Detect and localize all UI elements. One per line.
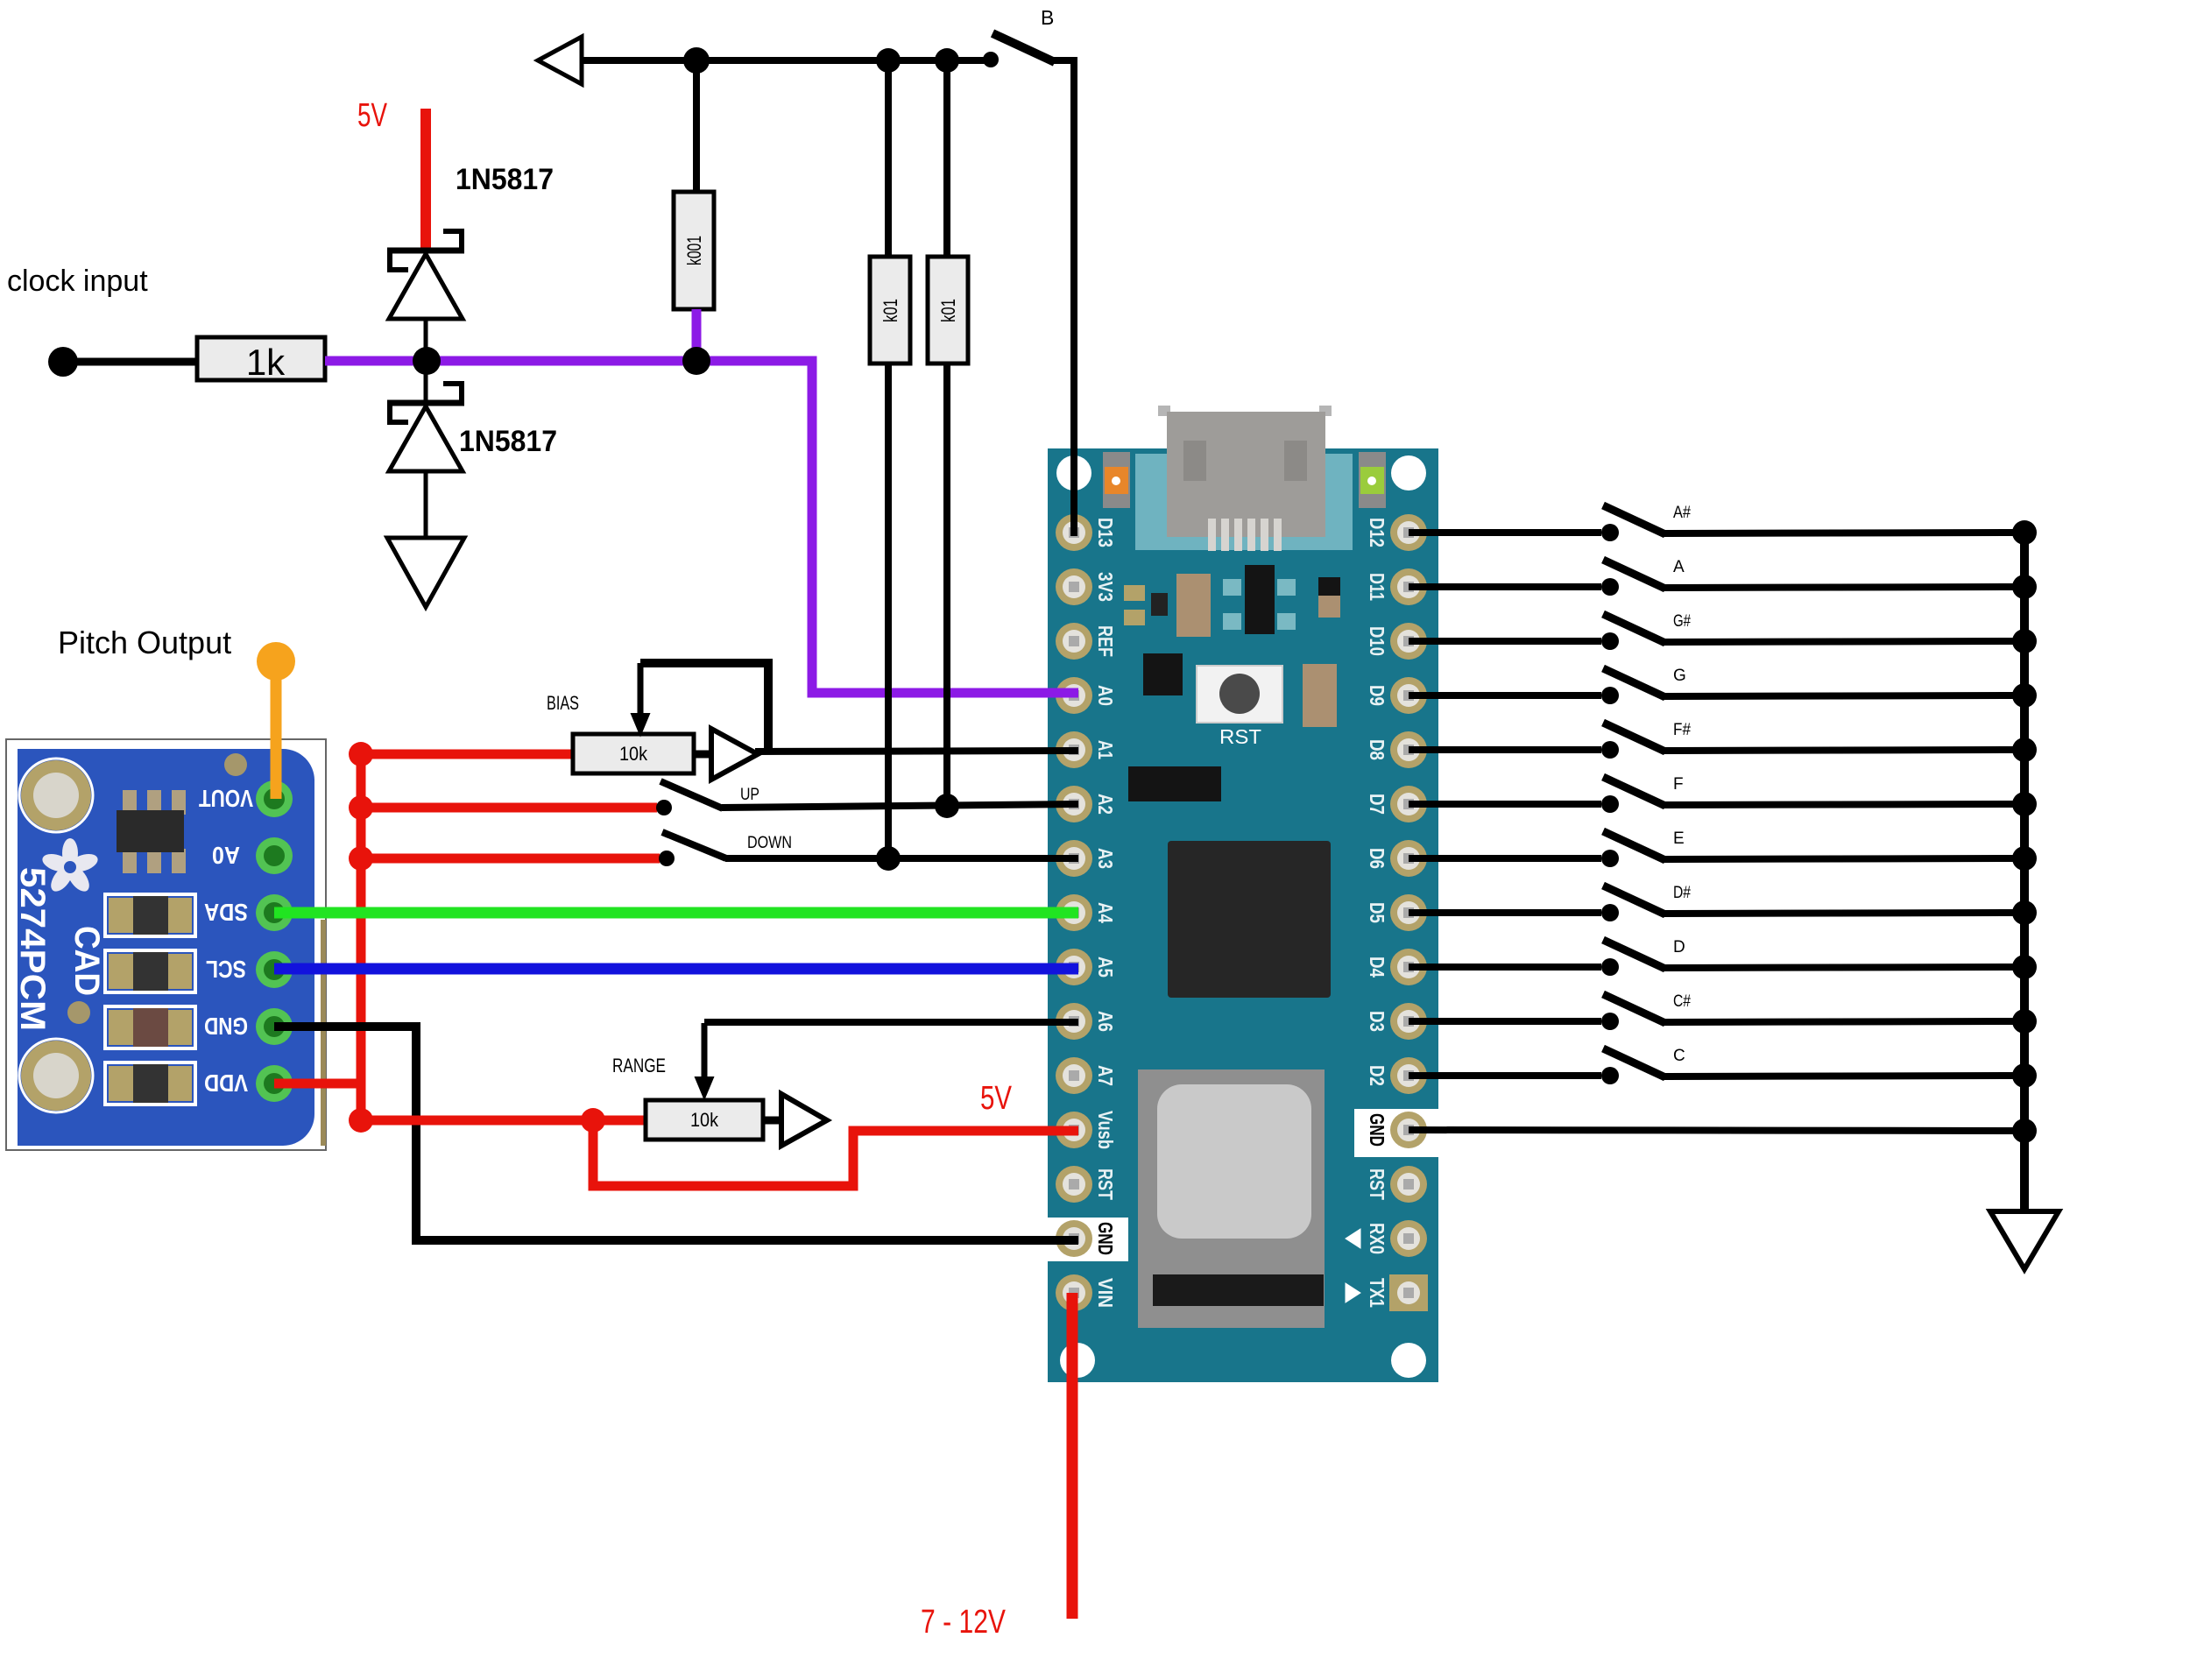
arrow head (off-page, pointing left) <box>538 37 582 84</box>
Nano pin A6 (left, 10) <box>1056 1003 1117 1040</box>
wire D4 to switch D <box>1409 964 1601 971</box>
node red bus / UP <box>349 795 373 820</box>
wire RANGE wiper to A6 <box>704 1019 1078 1026</box>
Nano pin RST (right, 13) <box>1366 1166 1427 1203</box>
Nano pin D4 (right, 9) <box>1366 949 1427 985</box>
switch D: contact dot <box>1601 958 1619 976</box>
svg-text:BIAS: BIAS <box>547 692 579 714</box>
svg-text:Vusb: Vusb <box>1094 1111 1117 1149</box>
Nano pin RST (left, 13) <box>1056 1166 1117 1203</box>
svg-text:D6: D6 <box>1366 848 1388 869</box>
wire switch G to ground bus <box>1664 695 2024 696</box>
svg-text:A4: A4 <box>1094 902 1117 923</box>
switch C: lever <box>1603 1048 1665 1077</box>
passive component (SDA row) <box>105 894 195 936</box>
wire (purple) 1k to diode junction <box>325 356 428 366</box>
svg-text:RST: RST <box>1366 1168 1388 1200</box>
potentiometer BIAS 10k <box>573 734 694 773</box>
switch E: contact dot <box>1601 850 1619 867</box>
svg-text:RX0: RX0 <box>1366 1223 1388 1254</box>
Nano pin REF (left, 3) <box>1056 623 1117 660</box>
svg-text:A: A <box>1673 558 1685 576</box>
svg-text:D5: D5 <box>1366 902 1388 923</box>
BIAS wiper arrow <box>632 663 649 735</box>
switch F#: lever <box>1603 723 1665 752</box>
svg-text:D4: D4 <box>1366 956 1388 978</box>
wire D2 to switch C <box>1409 1072 1601 1079</box>
node top rail / 10k left <box>876 48 901 73</box>
switch A#: contact dot <box>1601 524 1619 541</box>
switch B: contact dot <box>983 52 999 67</box>
switch C: contact dot <box>1601 1067 1619 1084</box>
switch D: lever <box>1603 940 1665 969</box>
op-amp buffer (RANGE) <box>763 1094 827 1146</box>
node: clock input terminal <box>48 347 78 377</box>
svg-text:A2: A2 <box>1094 794 1117 815</box>
node top rail / 10k right <box>935 48 959 73</box>
ground symbol (clock input clamp) <box>387 538 464 607</box>
wire switch G# to ground bus <box>1664 641 2024 642</box>
wire D12 to switch A# <box>1409 529 1601 536</box>
Nano mounting holes <box>1056 455 1426 1378</box>
svg-text:RST: RST <box>1094 1168 1117 1200</box>
wire GND (right) to ground bus <box>1409 1130 2024 1131</box>
Nano pin Vusb (left, 12) <box>1056 1111 1117 1149</box>
red supply bus (vertical) <box>357 754 366 1120</box>
switch G#: contact dot <box>1601 632 1619 650</box>
node ground bus / C <box>2012 1063 2037 1088</box>
svg-text:C: C <box>1673 1047 1685 1065</box>
svg-text:F: F <box>1673 775 1684 794</box>
Nano pin D2 (right, 11) <box>1366 1057 1427 1094</box>
wire D7 to switch F <box>1409 801 1601 808</box>
ground symbol (right bus) <box>1990 1211 2059 1269</box>
GND label box (left) <box>1045 1218 1128 1261</box>
svg-text:A3: A3 <box>1094 848 1117 869</box>
svg-text:E: E <box>1673 829 1685 848</box>
Nano pin D9 (right, 4) <box>1366 677 1427 714</box>
Nano pin RX0 (right, 14) <box>1366 1220 1427 1257</box>
switch G: lever <box>1603 668 1665 697</box>
node: diode clamp junction on clock line <box>413 347 441 375</box>
svg-text:D11: D11 <box>1366 573 1388 601</box>
wire top rail to 10k left <box>885 60 892 259</box>
wire switch A# to ground bus <box>1664 533 2024 533</box>
svg-text:A1: A1 <box>1094 740 1117 759</box>
voltage regulator and caps <box>1124 565 1340 637</box>
switch DOWN: contact dot <box>659 851 675 866</box>
svg-text:VDD: VDD <box>204 1069 248 1097</box>
svg-text:SDA: SDA <box>204 899 248 926</box>
Nano pin D8 (right, 5) <box>1366 731 1427 768</box>
svg-text:1N5817: 1N5817 <box>456 163 554 196</box>
wire D6 to switch E <box>1409 855 1601 862</box>
wire BIAS wiper to output <box>640 663 768 752</box>
Nano pin 3V3 (left, 2) <box>1056 568 1117 605</box>
wire clock input to R 1k <box>63 358 200 366</box>
switch F: contact dot <box>1601 795 1619 813</box>
svg-text:F#: F# <box>1673 721 1691 739</box>
node ground bus / A <box>2012 575 2037 599</box>
node ground bus / C# <box>2012 1009 2037 1034</box>
svg-text:Pitch Output: Pitch Output <box>58 625 231 660</box>
Nano pin TX1 (right, 15) <box>1366 1274 1428 1311</box>
MCP4725 pad A0 <box>212 837 293 874</box>
svg-text:C#: C# <box>1673 992 1691 1011</box>
Nano pin D11 (right, 2) <box>1366 568 1427 605</box>
svg-text:UP: UP <box>740 786 759 804</box>
node top rail / 100k <box>683 47 710 74</box>
switch B: lever <box>993 33 1055 62</box>
wire D8 to switch F# <box>1409 746 1601 753</box>
node ground bus / E <box>2012 846 2037 871</box>
svg-text:D3: D3 <box>1366 1011 1388 1032</box>
svg-text:GND: GND <box>1366 1113 1388 1147</box>
svg-text:G: G <box>1673 667 1686 685</box>
svg-text:10k: 10k <box>619 743 648 765</box>
resistor 10k (left pull-up, DOWN) <box>870 257 910 364</box>
svg-text:1k: 1k <box>246 342 286 383</box>
Nano pin A7 (left, 11) <box>1056 1057 1117 1094</box>
svg-text:D9: D9 <box>1366 685 1388 706</box>
node ground bus / G <box>2012 683 2037 708</box>
svg-text:A6: A6 <box>1094 1011 1117 1032</box>
RANGE wiper arrow <box>696 1023 713 1098</box>
wire switch D to ground bus <box>1664 967 2024 968</box>
switch C#: lever <box>1603 994 1665 1023</box>
Nano pin D12 (right, 1) <box>1366 514 1427 551</box>
wire (red) VDD to red bus <box>274 1079 361 1089</box>
node red bus / DOWN <box>349 846 373 871</box>
svg-text:5V: 5V <box>357 97 387 134</box>
wire (purple) diode junction to 100k junction <box>428 356 696 366</box>
wire (green) SDA to A4 <box>274 907 1078 919</box>
diode D1 1N5817 (clamp to 5V) <box>387 231 464 361</box>
wire top rail to 100k <box>693 60 700 194</box>
node ground bus / G# <box>2012 629 2037 653</box>
wire (purple) clock line to pin A0 <box>696 361 1048 693</box>
node: pitch output terminal (orange) <box>257 642 295 681</box>
resistor 10k (right pull-up, UP) <box>928 257 968 364</box>
node red RANGE branch <box>581 1108 605 1133</box>
svg-text:7 - 12V: 7 - 12V <box>921 1604 1007 1641</box>
svg-text:D12: D12 <box>1366 518 1388 547</box>
wire switch A to ground bus <box>1664 587 2024 588</box>
svg-text:GND: GND <box>204 1013 248 1040</box>
wire switch F# to ground bus <box>1664 750 2024 751</box>
switch F#: contact dot <box>1601 741 1619 759</box>
svg-text:A#: A# <box>1673 504 1691 522</box>
TX1 arrow marker <box>1346 1283 1360 1302</box>
Nano pin D13 (left, 1) <box>1056 514 1117 551</box>
MCP4725 pad SCL <box>206 951 293 988</box>
svg-text:VOUT: VOUT <box>199 785 253 812</box>
svg-text:RST: RST <box>1219 725 1261 748</box>
svg-text:5V: 5V <box>980 1080 1013 1117</box>
switch F: lever <box>1603 777 1665 806</box>
ground bus (vertical) <box>2020 533 2029 1214</box>
svg-text:D10: D10 <box>1366 626 1388 656</box>
svg-text:1N5817: 1N5817 <box>459 425 557 458</box>
svg-text:3V3: 3V3 <box>1094 572 1117 602</box>
Nano pin A5 (left, 9) <box>1056 949 1117 985</box>
MCP4725 DAC breakout board <box>6 739 326 1150</box>
wire UP switch to A2 <box>722 804 1078 808</box>
wire (red) VIN supply <box>1067 1293 1078 1619</box>
wire (blue) SCL to A5 <box>274 964 1078 975</box>
RST button <box>1197 666 1282 748</box>
potentiometer RANGE 10k <box>646 1100 763 1140</box>
wire switch B to D13 (upper part) <box>1053 60 1074 448</box>
svg-text:TX1: TX1 <box>1366 1278 1388 1308</box>
node DOWN / 10k left <box>876 846 901 871</box>
svg-text:D: D <box>1673 938 1685 956</box>
Nano pin A0 (left, 4) <box>1056 677 1117 714</box>
Nano pin A1 (left, 5) <box>1056 731 1117 768</box>
Nano pin VIN (left, 15) <box>1056 1274 1117 1311</box>
resistor 1k <box>197 337 325 380</box>
svg-text:SCL: SCL <box>206 956 246 983</box>
wire (red) bus to UP switch <box>361 803 657 813</box>
MCP4725 pad VDD <box>204 1065 293 1102</box>
svg-text:B: B <box>1041 6 1054 29</box>
node ground bus / F <box>2012 792 2037 816</box>
GND label box (right) <box>1354 1109 1438 1157</box>
svg-text:A0: A0 <box>1094 685 1117 706</box>
MCP4725 pad VOUT <box>199 780 293 817</box>
wire op-amp output to A1 <box>755 751 1078 752</box>
svg-text:D2: D2 <box>1366 1065 1388 1086</box>
Nano pin D3 (right, 10) <box>1366 1003 1427 1040</box>
svg-text:D8: D8 <box>1366 739 1388 760</box>
black IC near A1/A2 <box>1128 766 1221 801</box>
wire top rail <box>582 57 991 64</box>
wire switch C to ground bus <box>1664 1076 2024 1076</box>
switch G: contact dot <box>1601 687 1619 704</box>
Nano pin D10 (right, 3) <box>1366 623 1427 660</box>
resistor 100k <box>674 192 714 309</box>
svg-text:DOWN: DOWN <box>747 834 792 852</box>
wire (purple) into pin A0 (over board) <box>1042 688 1078 698</box>
switch E: lever <box>1603 831 1665 860</box>
switch UP: contact dot <box>656 800 672 815</box>
wire D11 to switch A <box>1409 583 1601 590</box>
svg-text:VIN: VIN <box>1094 1278 1117 1308</box>
wire (red) bus to DOWN switch <box>361 854 660 864</box>
wire switch C# to ground bus <box>1664 1021 2024 1022</box>
switch A#: lever <box>1603 505 1665 534</box>
passive component (GND row) <box>105 1006 195 1048</box>
Nano pin GND (right, 12) <box>1366 1112 1427 1148</box>
svg-text:k01: k01 <box>880 299 901 322</box>
switch UP: lever <box>661 781 723 808</box>
wire D10 to switch G# <box>1409 638 1601 645</box>
switch D#: contact dot <box>1601 904 1619 921</box>
svg-text:RANGE: RANGE <box>612 1055 666 1076</box>
wire D3 to switch C# <box>1409 1018 1601 1025</box>
node red bus / BIAS <box>349 742 373 766</box>
metal module (bottom) <box>1138 1069 1325 1328</box>
Nano pin D7 (right, 6) <box>1366 786 1427 822</box>
svg-text:clock input: clock input <box>7 265 148 298</box>
wire switch F to ground bus <box>1664 804 2024 805</box>
wire 10k right to UP switch line <box>943 364 950 807</box>
svg-text:CAD: CAD <box>67 926 106 996</box>
switch A: lever <box>1603 560 1665 589</box>
wire DOWN switch to A3 <box>725 855 1078 862</box>
svg-text:D#: D# <box>1673 884 1691 902</box>
wire (red) bus to BIAS pot <box>361 750 575 759</box>
wire (black) MCP GND to Nano GND (left) <box>274 1027 1078 1240</box>
svg-text:10k: 10k <box>690 1109 719 1131</box>
svg-text:k001: k001 <box>683 236 705 265</box>
wire top rail to 10k right <box>943 60 950 259</box>
node ground bus / D <box>2012 955 2037 979</box>
wire 5V supply (red) <box>420 109 431 248</box>
svg-text:A5: A5 <box>1094 956 1117 978</box>
Nano pin D6 (right, 7) <box>1366 840 1427 877</box>
svg-text:REF: REF <box>1094 625 1117 657</box>
wire switch B to D13 (over board) <box>1070 447 1077 536</box>
node ground bus / A# <box>2012 520 2037 545</box>
passive component (VDD row) <box>105 1062 195 1105</box>
USB connector <box>1158 406 1332 551</box>
node ground bus / GND <box>2012 1119 2037 1143</box>
switch A: contact dot <box>1601 578 1619 596</box>
wire switch D# to ground bus <box>1664 913 2024 914</box>
svg-text:5274PCM: 5274PCM <box>13 867 52 1031</box>
cap right of RST <box>1303 664 1337 727</box>
LED (green, power) <box>1359 452 1386 508</box>
wire (purple) 100k to clock line <box>692 309 702 361</box>
node ground bus / D# <box>2012 900 2037 925</box>
svg-text:D7: D7 <box>1366 794 1388 815</box>
switch C#: contact dot <box>1601 1013 1619 1030</box>
wire switch E to ground bus <box>1664 858 2024 859</box>
svg-text:A7: A7 <box>1094 1065 1117 1086</box>
MCP4725 pad GND <box>204 1008 293 1045</box>
wire (orange) pitch output <box>271 666 282 799</box>
Nano pin GND (left, 14) <box>1056 1220 1117 1257</box>
RX0 arrow marker <box>1346 1229 1360 1248</box>
diode D2 1N5817 (clamp to ground) <box>387 361 464 538</box>
Nano pin D5 (right, 8) <box>1366 894 1427 931</box>
Arduino Nano board <box>1048 448 1438 1382</box>
switch G#: lever <box>1603 614 1665 643</box>
svg-text:k01: k01 <box>937 299 959 322</box>
small black IC <box>1143 653 1183 695</box>
node ground bus / F# <box>2012 738 2037 762</box>
wire 10k left to DOWN switch line <box>885 364 892 858</box>
MCP4725 pad SDA <box>204 894 293 931</box>
svg-text:G#: G# <box>1673 612 1691 631</box>
MCU (main chip) <box>1168 841 1331 998</box>
Nano pin A2 (left, 6) <box>1056 786 1117 822</box>
node UP / 10k right <box>935 794 959 818</box>
node red bus / RANGE <box>349 1108 373 1133</box>
switch D#: lever <box>1603 886 1665 914</box>
svg-text:A0: A0 <box>212 842 240 869</box>
wire D9 to switch G <box>1409 692 1601 699</box>
wire (red) 5V to Vusb <box>593 1120 1078 1186</box>
MCP4725 IC (SOT-23-6) <box>117 790 186 873</box>
node 100k junction on clock line <box>682 347 710 375</box>
wire D5 to switch D# <box>1409 909 1601 916</box>
svg-text:GND: GND <box>1094 1222 1117 1255</box>
LED (orange, D13) <box>1103 452 1130 508</box>
wire (red) bus to RANGE pot <box>361 1116 648 1126</box>
Nano pin A3 (left, 7) <box>1056 840 1117 877</box>
svg-text:D13: D13 <box>1094 518 1117 547</box>
Nano pin A4 (left, 8) <box>1056 894 1117 931</box>
switch DOWN: lever <box>662 832 726 858</box>
passive component (SCL row) <box>105 950 195 992</box>
op-amp buffer (BIAS) <box>694 729 758 780</box>
